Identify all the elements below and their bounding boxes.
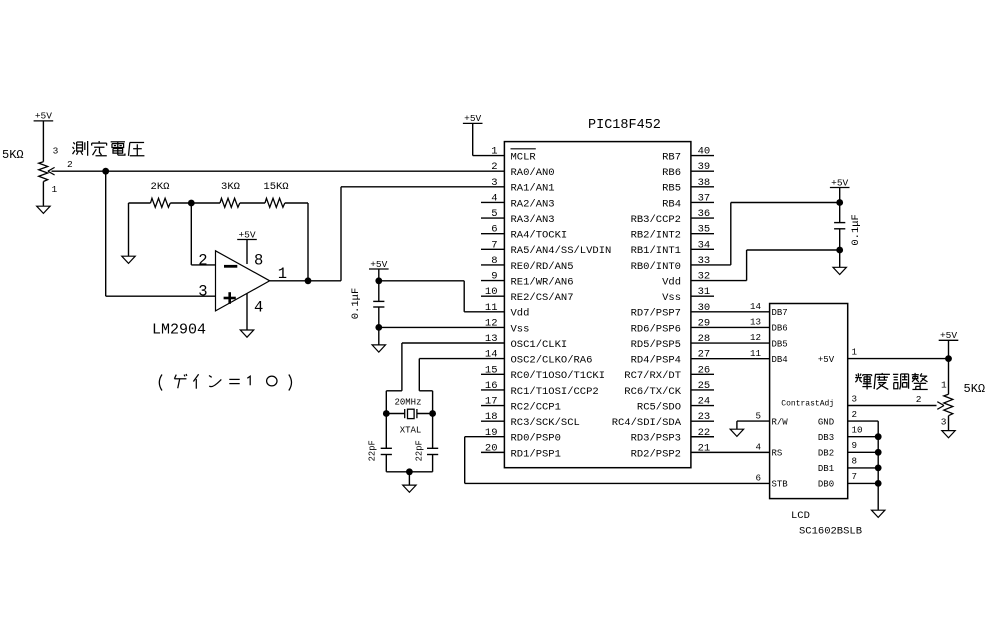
wire (node A down to op-amp pin3) [106,171,216,296]
LCD pin 2 GND [818,409,857,428]
svg-text:RC0/T1OSO/T1CKI: RC0/T1OSO/T1CKI [511,370,606,382]
svg-text:OSC2/CLKO/RA6: OSC2/CLKO/RA6 [511,355,593,367]
pin 17 stub [481,405,504,407]
wire DB2 stub [848,451,879,453]
wire (to pin 32 Vdd) [691,250,840,281]
pin 33 number [698,255,711,267]
pin 6 number [491,224,497,236]
svg-text:24: 24 [698,396,711,408]
ground (op-amp pin 4) [240,330,253,337]
pin 32 number [698,271,711,283]
svg-text:22pF: 22pF [415,440,425,461]
pin 19 name RD0/PSP0 [511,433,561,445]
svg-text:36: 36 [698,208,711,220]
wire (pin 27 RD4 to LCD DB4) [691,358,770,360]
pin 35 number [698,224,711,236]
svg-text:6: 6 [755,473,761,484]
svg-text:2: 2 [491,161,497,173]
pin 9 stub [481,280,504,282]
LCD pin 4 RS [755,442,782,459]
resistor 3KΩ [191,181,265,207]
svg-text:MCLR: MCLR [511,152,537,164]
ground (LCD bus) [872,510,885,517]
pin 31 stub [691,295,714,297]
pin 30 number [698,302,711,314]
pin 25 name RC6/TX/CK [624,386,681,398]
pin 8 number [491,255,497,267]
svg-text:22: 22 [698,427,711,439]
wire (ContrastAdj to pot wiper) [848,405,937,407]
svg-text:1: 1 [52,184,58,195]
pin 14 name OSC2/CLKO/RA6 [511,355,593,367]
svg-text:7: 7 [491,239,497,251]
label 5KΩ [964,382,986,396]
svg-text:RC3/SCK/SCL: RC3/SCK/SCL [511,417,580,429]
LCD module U3 SC1602BSLB [770,304,848,499]
svg-text:9: 9 [852,440,858,451]
svg-text:+5V: +5V [940,330,957,341]
svg-text:SC1602BSLB: SC1602BSLB [799,525,862,537]
crystal X1 XTAL 20MHz [386,409,432,419]
svg-text:22pF: 22pF [368,440,378,461]
pin 4 [254,299,263,317]
wire [378,307,380,345]
ground (C1) [372,345,385,352]
svg-text:5: 5 [755,410,761,421]
power +5V (left pot) [34,111,54,122]
pin 40 name RB7 [662,152,681,164]
svg-text:2: 2 [852,409,858,420]
svg-text:RA2/AN3: RA2/AN3 [511,198,555,210]
pin 10 name RE2/CS/AN7 [511,292,574,304]
svg-text:6: 6 [491,224,497,236]
wire (pin 14 OSC2 to crystal) [419,359,504,414]
pin 24 number [698,396,711,408]
power +5V (contrast pot) [939,330,959,341]
resistor 15KΩ [263,181,308,207]
svg-text:RB5: RB5 [662,183,681,195]
pin 5 name RA3/AN3 [511,214,555,226]
wire (op-amp output) [270,280,341,282]
svg-text:RA0/AN0: RA0/AN0 [511,167,555,179]
svg-text:2KΩ: 2KΩ [151,181,170,193]
svg-text:RC7/RX/DT: RC7/RX/DT [624,370,681,382]
svg-text:1: 1 [491,146,497,158]
svg-text:RB0/INT0: RB0/INT0 [631,261,681,273]
pin 24 stub [691,405,714,407]
svg-text:XTAL: XTAL [400,426,422,436]
pin 9 name RE1/WR/AN6 [511,276,574,288]
svg-text:LCD: LCD [791,510,810,522]
node 測定電圧 (measured voltage) [73,141,145,156]
svg-text:8: 8 [254,251,263,269]
pin 37 number [698,192,711,204]
LCD pin 13 DB6 [750,317,788,334]
pin 2 [916,394,922,405]
svg-text:RD6/PSP6: RD6/PSP6 [631,323,681,335]
svg-text:14: 14 [485,349,498,361]
svg-text:18: 18 [485,411,498,423]
svg-text:2: 2 [198,251,207,269]
ground (left pot) [37,206,50,213]
svg-text:3: 3 [941,417,947,428]
svg-text:+5V: +5V [831,177,848,188]
svg-text:RD7/PSP7: RD7/PSP7 [631,308,681,320]
svg-text:7: 7 [852,471,858,482]
wire (to pin 12 Vss) [379,326,505,328]
pin 26 number [698,364,711,376]
pin 7 number [491,239,497,251]
wire (GND bus) [848,421,879,510]
svg-text:3: 3 [491,177,497,189]
pin 26 name RC7/RX/DT [624,370,681,382]
junction [875,449,882,456]
pin 22 number [698,427,711,439]
svg-text:RB4: RB4 [662,198,681,210]
LCD pin 1 +5V [818,346,858,365]
pin 19 number [485,427,498,439]
svg-text:RD5/PSP5: RD5/PSP5 [631,339,681,351]
svg-text:4: 4 [755,442,761,453]
junction (crystal right) [429,410,436,417]
pin 3 [198,283,207,301]
svg-text:RE0/RD/AN5: RE0/RD/AN5 [511,261,574,273]
pin 8 name RE0/RD/AN5 [511,261,574,273]
svg-text:DB6: DB6 [772,324,788,334]
label LCD [791,510,810,522]
svg-text:11: 11 [485,302,498,314]
power +5V (Vdd decoupling) [369,259,389,270]
svg-text:RD2/PSP2: RD2/PSP2 [631,448,681,460]
pin 27 number [698,349,711,361]
pin 11 number [485,302,498,314]
svg-text:3: 3 [852,393,858,404]
LCD pin 12 DB5 [750,332,788,349]
wire [839,188,841,223]
svg-text:RB7: RB7 [662,152,681,164]
pin 6 stub [481,233,504,235]
wire (node B to op-amp pin 2) [191,203,215,265]
pin 4 number [491,192,497,204]
pin 8 stub [481,264,504,266]
wire (pin 19 RD0/PSP0 to LCD STB) [465,437,770,484]
pin 3 name RA1/AN1 [511,183,555,195]
LCD pin 11 DB4 [750,348,788,365]
svg-text:8: 8 [491,255,497,267]
pin 36 stub [691,217,714,219]
LCD pin 14 DB7 [750,301,788,318]
svg-text:RE1/WR/AN6: RE1/WR/AN6 [511,276,574,288]
wire (output up to PIC pin3 RA1/AN1) [341,187,504,281]
svg-text:23: 23 [698,411,711,423]
svg-text:12: 12 [750,332,761,343]
svg-text:RB2/INT2: RB2/INT2 [631,230,681,242]
junction [945,355,952,362]
svg-text:26: 26 [698,364,711,376]
capacitor C1 0.1μF [350,288,384,320]
svg-text:15KΩ: 15KΩ [263,181,288,193]
pin 7 name RA5/AN4/SS/LVDIN [511,245,612,257]
power +5V (MCLR) [463,113,483,124]
pin 23 stub [691,420,714,422]
pin 1 [52,184,58,195]
pin 6 name RA4/TOCKI [511,230,568,242]
svg-text:DB2: DB2 [818,449,834,459]
svg-text:RA5/AN4/SS/LVDIN: RA5/AN4/SS/LVDIN [511,245,612,257]
ground (crystal) [403,485,416,492]
pin 3 [53,145,59,156]
pin 35 stub [691,233,714,235]
svg-text:10: 10 [485,286,498,298]
wire (LCD +5V pin 1) [848,340,949,394]
wire (R/W to ground) [737,421,770,429]
junction node A [102,168,109,175]
pin 25 stub [691,389,714,391]
ground (contrast pot) [942,431,955,438]
pin 13 number [485,333,498,345]
pin 2 [198,251,207,269]
pin 28 name RD5/PSP5 [631,339,681,351]
pin 4 stub [481,201,504,203]
svg-text:10: 10 [852,425,863,436]
pin 18 stub [481,420,504,422]
pin 2 number [491,161,497,173]
LCD pin 10 DB3 [818,425,863,444]
svg-text:14: 14 [750,301,762,312]
svg-text:5KΩ: 5KΩ [2,148,24,162]
svg-text:GND: GND [818,417,834,427]
svg-text:11: 11 [750,348,762,359]
wire DB0 stub [848,482,879,484]
power +5V (op-amp pin 8) [237,229,257,240]
svg-text:4: 4 [491,192,497,204]
svg-text:39: 39 [698,161,711,173]
ground (C4) [833,267,846,274]
svg-text:9: 9 [491,271,497,283]
svg-text:16: 16 [485,380,498,392]
pin 20 stub [481,451,504,453]
svg-text:RD1/PSP1: RD1/PSP1 [511,448,561,460]
svg-text:1: 1 [941,380,947,391]
pin 9 number [491,271,497,283]
svg-text:RS: RS [772,449,783,459]
pin 38 number [698,177,711,189]
svg-text:20MHz: 20MHz [394,398,421,408]
wire (pin 13 OSC1 to crystal) [386,343,504,414]
ground (2K) [122,256,135,263]
pin 1 [941,380,947,391]
wire DB1 stub [848,467,879,469]
MCLR overline [511,148,536,150]
pin 16 name RC1/T1OSI/CCP2 [511,386,599,398]
junction [836,199,843,206]
svg-text:R/W: R/W [772,417,789,427]
svg-text:40: 40 [698,146,711,158]
pin 34 stub [691,248,714,250]
svg-text:13: 13 [485,333,498,345]
capacitor C3 22pF [415,414,439,472]
svg-text:3: 3 [198,283,207,301]
LCD pin 8 DB1 [818,456,857,475]
pin 15 name RC0/T1OSO/T1CKI [511,370,606,382]
pin 15 number [485,364,498,376]
svg-text:DB1: DB1 [818,464,834,474]
svg-text:RC2/CCP1: RC2/CCP1 [511,401,561,413]
svg-text:31: 31 [698,286,711,298]
pin 25 number [698,380,711,392]
pin 13 name OSC1/CLKI [511,339,568,351]
wire DB3 stub [848,436,879,438]
svg-text:8: 8 [852,456,858,467]
svg-text:RA3/AN3: RA3/AN3 [511,214,555,226]
junction [875,465,882,472]
wire (to pin 1 MCLR) [473,123,505,155]
LCD pin 3 ContrastAdj [781,393,857,408]
svg-text:Vdd: Vdd [511,308,530,320]
junction (crystal left) [383,410,390,417]
pin 36 name RB3/CCP2 [631,214,681,226]
pin 24 name RC5/SDO [637,401,681,413]
svg-text:4: 4 [254,299,263,317]
svg-text:1: 1 [852,346,858,357]
pin 23 number [698,411,711,423]
node 輝度調整 (brightness adjust) [855,373,928,390]
wire (pin 30 RD7 to LCD DB7) [691,311,770,313]
svg-text:RE2/CS/AN7: RE2/CS/AN7 [511,292,574,304]
wire (crystal ground rail) [386,472,432,485]
svg-text:Vss: Vss [662,292,681,304]
pin 22 stub [691,436,714,438]
svg-text:5KΩ: 5KΩ [964,382,986,396]
LCD pin 5 R/W [755,410,788,427]
wire (pin 4) [246,294,248,330]
pin 3 [941,417,947,428]
svg-text:38: 38 [698,177,711,189]
pin 3 number [491,177,497,189]
pin 5 number [491,208,497,220]
capacitor C4 0.1μF [834,214,862,246]
wire [42,121,44,162]
label 20MHz [394,398,421,408]
svg-text:RC4/SDI/SDA: RC4/SDI/SDA [612,417,682,429]
svg-text:DB7: DB7 [772,308,788,318]
pin 36 number [698,208,711,220]
pin 38 stub [691,186,714,188]
label U1 LM2904 [152,322,206,339]
pin 30 name RD7/PSP7 [631,308,681,320]
svg-text:RA1/AN1: RA1/AN1 [511,183,555,195]
pin 14 number [485,349,498,361]
pin 2 name RA0/AN0 [511,167,555,179]
svg-text:19: 19 [485,427,498,439]
svg-text:35: 35 [698,224,711,236]
svg-text:STB: STB [772,480,789,490]
IC U2 PIC18F452 [504,142,691,468]
pin 40 number [698,146,711,158]
wire (pin 29 RD6 to LCD DB6) [691,326,770,328]
note (gain = 10) [159,374,291,391]
wire (feedback to output) [307,203,309,281]
pin 33 name RB0/INT0 [631,261,681,273]
power +5V (right decoupling) [830,177,850,188]
resistor 2KΩ [129,181,192,207]
svg-text:+5V: +5V [370,259,387,270]
pin 32 name Vdd [662,276,681,288]
junction [406,468,413,475]
svg-text:12: 12 [485,317,498,329]
pin 16 stub [481,389,504,391]
pin 17 number [485,396,498,408]
pin 21 number [698,442,711,454]
wire [378,269,380,301]
pin 18 name RC3/SCK/SCL [511,417,580,429]
pin 28 number [698,333,711,345]
svg-text:15: 15 [485,364,498,376]
pin 37 name RB4 [662,198,681,210]
junction [375,324,382,331]
svg-text:PIC18F452: PIC18F452 [588,118,661,133]
pin 31 number [698,286,711,298]
svg-text:+5V: +5V [35,111,52,122]
wire (2K to ground) [128,203,130,256]
pin 12 number [485,317,498,329]
svg-text:RD3/PSP3: RD3/PSP3 [631,433,681,445]
svg-text:RB3/CCP2: RB3/CCP2 [631,214,681,226]
pin 1 [278,265,287,283]
wire (pin 21 RD2 to LCD RS) [691,451,770,453]
svg-text:DB5: DB5 [772,339,788,349]
svg-text:2: 2 [916,394,922,405]
svg-text:DB3: DB3 [818,433,834,443]
label 5KΩ [2,148,24,162]
pin 5 stub [481,217,504,219]
label PIC18F452 [588,118,661,133]
pin 37 stub [691,201,714,203]
svg-text:+5V: +5V [818,355,835,365]
pin 34 number [698,239,711,251]
potentiometer 5KΩ (measured voltage divider) [39,162,55,206]
svg-text:5: 5 [491,208,497,220]
svg-text:RD0/PSP0: RD0/PSP0 [511,433,561,445]
svg-text:0.1μF: 0.1μF [850,214,862,246]
LCD pin 6 STB [755,473,788,490]
svg-text:34: 34 [698,239,711,251]
pin 22 name RD3/PSP3 [631,433,681,445]
svg-text:2: 2 [67,159,73,170]
junction [875,480,882,487]
pin 12 name Vss [511,323,530,335]
potentiometer 5KΩ (contrast) [937,394,953,430]
svg-text:RD4/PSP4: RD4/PSP4 [631,355,681,367]
svg-text:3KΩ: 3KΩ [221,181,240,193]
svg-text:20: 20 [485,442,498,454]
svg-text:ContrastAdj: ContrastAdj [781,399,834,408]
pin 27 name RD4/PSP4 [631,355,681,367]
wire (pin 8) [246,240,248,265]
svg-text:+5V: +5V [464,113,481,124]
pin 17 name RC2/CCP1 [511,401,561,413]
op-amp U1 LM2904 [216,251,270,311]
svg-text:RB6: RB6 [662,167,681,179]
pin 2 [67,159,73,170]
capacitor C2 22pF [368,414,392,472]
pin 31 name Vss [662,292,681,304]
pin 1 name MCLR [511,152,537,164]
pin 7 stub [481,248,504,250]
pin 16 number [485,380,498,392]
pin 26 stub [691,373,714,375]
pin 29 number [698,317,711,329]
